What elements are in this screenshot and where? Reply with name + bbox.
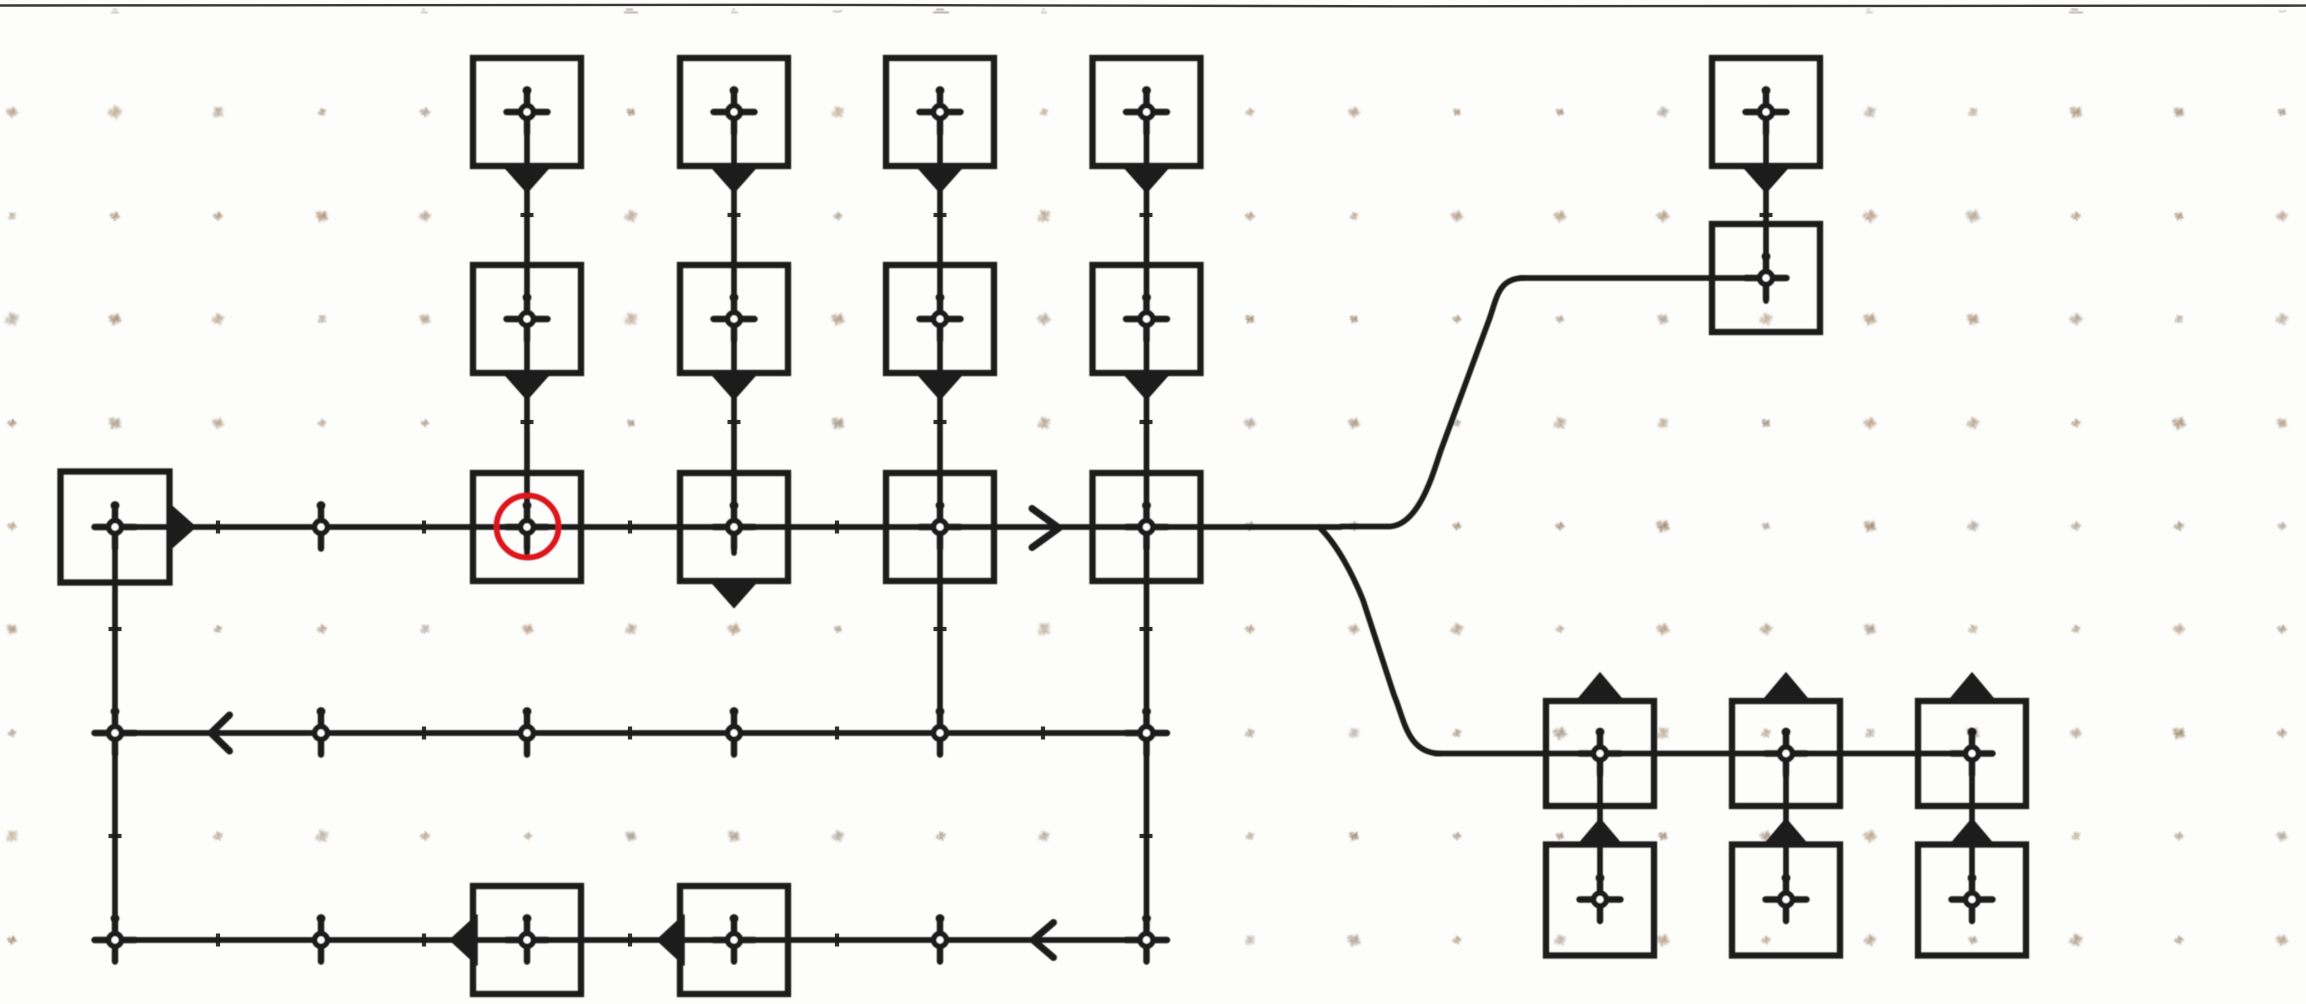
wire column x734 xyxy=(731,112,737,553)
box row A col 527 xyxy=(473,58,581,166)
box row A col 734 xyxy=(680,58,788,166)
node D-527 xyxy=(521,707,534,754)
node D-115 xyxy=(95,707,136,754)
chevron arrow left on row E xyxy=(1033,923,1054,958)
box top right upper xyxy=(1712,58,1820,166)
node B-1146 xyxy=(1126,293,1167,340)
box row E col 527 xyxy=(473,886,581,994)
node B-527 xyxy=(507,293,548,340)
node A-940 xyxy=(920,86,961,133)
node A-734 xyxy=(714,86,755,133)
box row A col 940 xyxy=(886,58,994,166)
arrowhead down below box A-b xyxy=(711,166,758,193)
node D-940 xyxy=(934,707,947,754)
node D-1146 xyxy=(1126,707,1167,754)
node A-1146 xyxy=(1126,86,1167,133)
wire into right box node xyxy=(1520,275,1766,281)
box row B col 1146 xyxy=(1093,265,1201,373)
box row B col 734 xyxy=(680,265,788,373)
chevron arrow left on row D xyxy=(211,715,230,751)
box cluster upper 1 xyxy=(1546,701,1654,806)
arrowhead down below box A-e xyxy=(1743,166,1790,193)
node cluster lower 2 xyxy=(1766,874,1807,921)
arrowhead up atop cluster lower 2 xyxy=(1764,819,1808,845)
box row C col 734 xyxy=(680,473,788,581)
node C-940 xyxy=(920,501,961,548)
box row E col 734 xyxy=(680,886,788,994)
wire main trunk row C xyxy=(115,524,1341,530)
wire cluster row xyxy=(1435,751,1972,757)
arrowhead down below box B-b xyxy=(711,373,758,400)
arrowhead down below box B-a xyxy=(504,373,551,400)
arrowhead right at start box xyxy=(170,504,196,550)
box cluster lower 2 xyxy=(1732,845,1840,956)
node top right upper xyxy=(1746,86,1787,133)
arrowhead up atop cluster lower 3 xyxy=(1950,819,1994,845)
arrowhead left at box E-734 xyxy=(657,915,684,965)
node cluster upper 1 xyxy=(1580,728,1621,775)
node cluster upper 2 xyxy=(1766,728,1807,775)
node D-734 xyxy=(728,707,741,754)
wire cluster column 3 xyxy=(1969,754,1975,900)
node cluster lower 3 xyxy=(1952,874,1993,921)
box row A col 1146 xyxy=(1093,58,1201,166)
arrowhead down below box A-d xyxy=(1123,166,1170,193)
box row C col 115 start xyxy=(61,472,170,583)
box row B col 527 xyxy=(473,265,581,373)
arrowhead down below box A-c xyxy=(917,166,964,193)
chevron arrow right on trunk xyxy=(1032,509,1059,548)
node C-115 xyxy=(95,501,136,548)
wire left column x115 xyxy=(112,527,118,940)
wire branch curve down to cluster xyxy=(1319,527,1440,754)
box row C col 1146 xyxy=(1093,473,1201,581)
box cluster upper 3 xyxy=(1918,701,2026,806)
arrowhead down below box B-c xyxy=(917,373,964,400)
node C-734 xyxy=(714,501,755,548)
box top right lower xyxy=(1712,224,1820,332)
red highlight circle on node C-527 xyxy=(497,496,559,558)
node E-1146 xyxy=(1126,914,1167,961)
box row B col 940 xyxy=(886,265,994,373)
node E-940 xyxy=(934,914,947,961)
wire cluster column 2 xyxy=(1783,754,1789,900)
box cluster lower 3 xyxy=(1918,845,2026,956)
arrowhead up atop cluster upper 2 xyxy=(1763,673,1810,701)
wire column x527 xyxy=(524,112,530,553)
arrowhead down below box B-d xyxy=(1123,373,1170,400)
box cluster upper 2 xyxy=(1732,701,1840,806)
wire branch curve up to right box xyxy=(1341,278,1524,527)
node cluster lower 1 xyxy=(1580,874,1621,921)
box row C col 527 xyxy=(473,473,581,581)
node top right lower xyxy=(1746,252,1787,299)
wire right pair column xyxy=(1763,112,1769,301)
arrowhead down below box C-734 xyxy=(711,581,758,608)
node A-527 xyxy=(507,86,548,133)
wire cluster column 1 xyxy=(1597,754,1603,900)
wire row D return line xyxy=(115,730,1147,736)
arrowhead up atop cluster upper 1 xyxy=(1577,673,1624,701)
node cluster upper 3 xyxy=(1952,728,1993,775)
arrowhead up atop cluster upper 3 xyxy=(1949,673,1996,701)
node E-115 xyxy=(95,914,136,961)
wire row E bottom line xyxy=(115,937,1147,943)
wire column x940 xyxy=(937,112,943,733)
node E-527 xyxy=(507,914,548,961)
arrowhead left at box E-527 xyxy=(450,915,477,965)
node B-940 xyxy=(920,293,961,340)
node C-1146 xyxy=(1126,501,1167,548)
node B-734 xyxy=(714,293,755,340)
node E-321 xyxy=(315,914,328,961)
node D-321 xyxy=(315,707,328,754)
node E-734 xyxy=(714,914,755,961)
box row C col 940 xyxy=(886,473,994,581)
box cluster lower 1 xyxy=(1546,845,1654,956)
node C-321 xyxy=(315,501,328,548)
node C-527 xyxy=(507,501,548,548)
arrowhead down below box A-a xyxy=(504,166,551,193)
wire column x1146 xyxy=(1144,112,1150,940)
arrowhead up atop cluster lower 1 xyxy=(1578,819,1622,845)
